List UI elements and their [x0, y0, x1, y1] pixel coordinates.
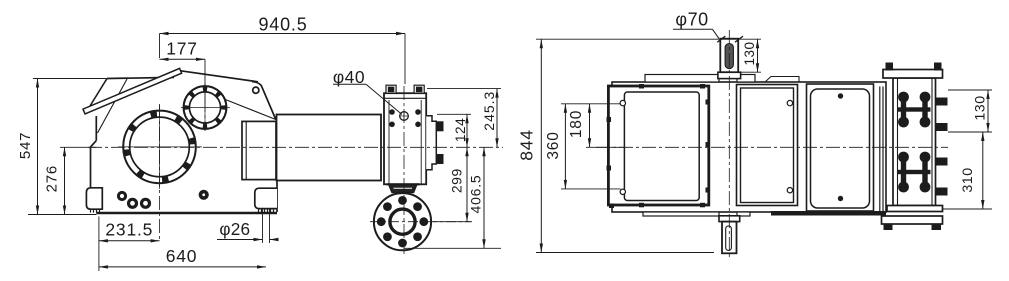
svg-text:177: 177 — [166, 39, 198, 59]
svg-text:406.5: 406.5 — [468, 174, 484, 213]
svg-text:299: 299 — [449, 168, 465, 193]
svg-text:245.3: 245.3 — [481, 91, 497, 131]
svg-text:231.5: 231.5 — [105, 219, 153, 239]
svg-text:124: 124 — [453, 118, 468, 142]
svg-text:360: 360 — [545, 131, 562, 159]
svg-text:276: 276 — [43, 165, 60, 192]
svg-text:180: 180 — [568, 110, 585, 138]
svg-text:φ26: φ26 — [219, 219, 250, 239]
svg-text:310: 310 — [960, 167, 976, 192]
svg-text:640: 640 — [166, 246, 198, 266]
svg-text:130: 130 — [742, 41, 757, 65]
svg-text:φ70: φ70 — [675, 9, 708, 29]
svg-text:940.5: 940.5 — [258, 14, 307, 34]
svg-text:547: 547 — [17, 132, 34, 159]
svg-text:130: 130 — [973, 95, 989, 120]
svg-text:844: 844 — [517, 129, 537, 161]
